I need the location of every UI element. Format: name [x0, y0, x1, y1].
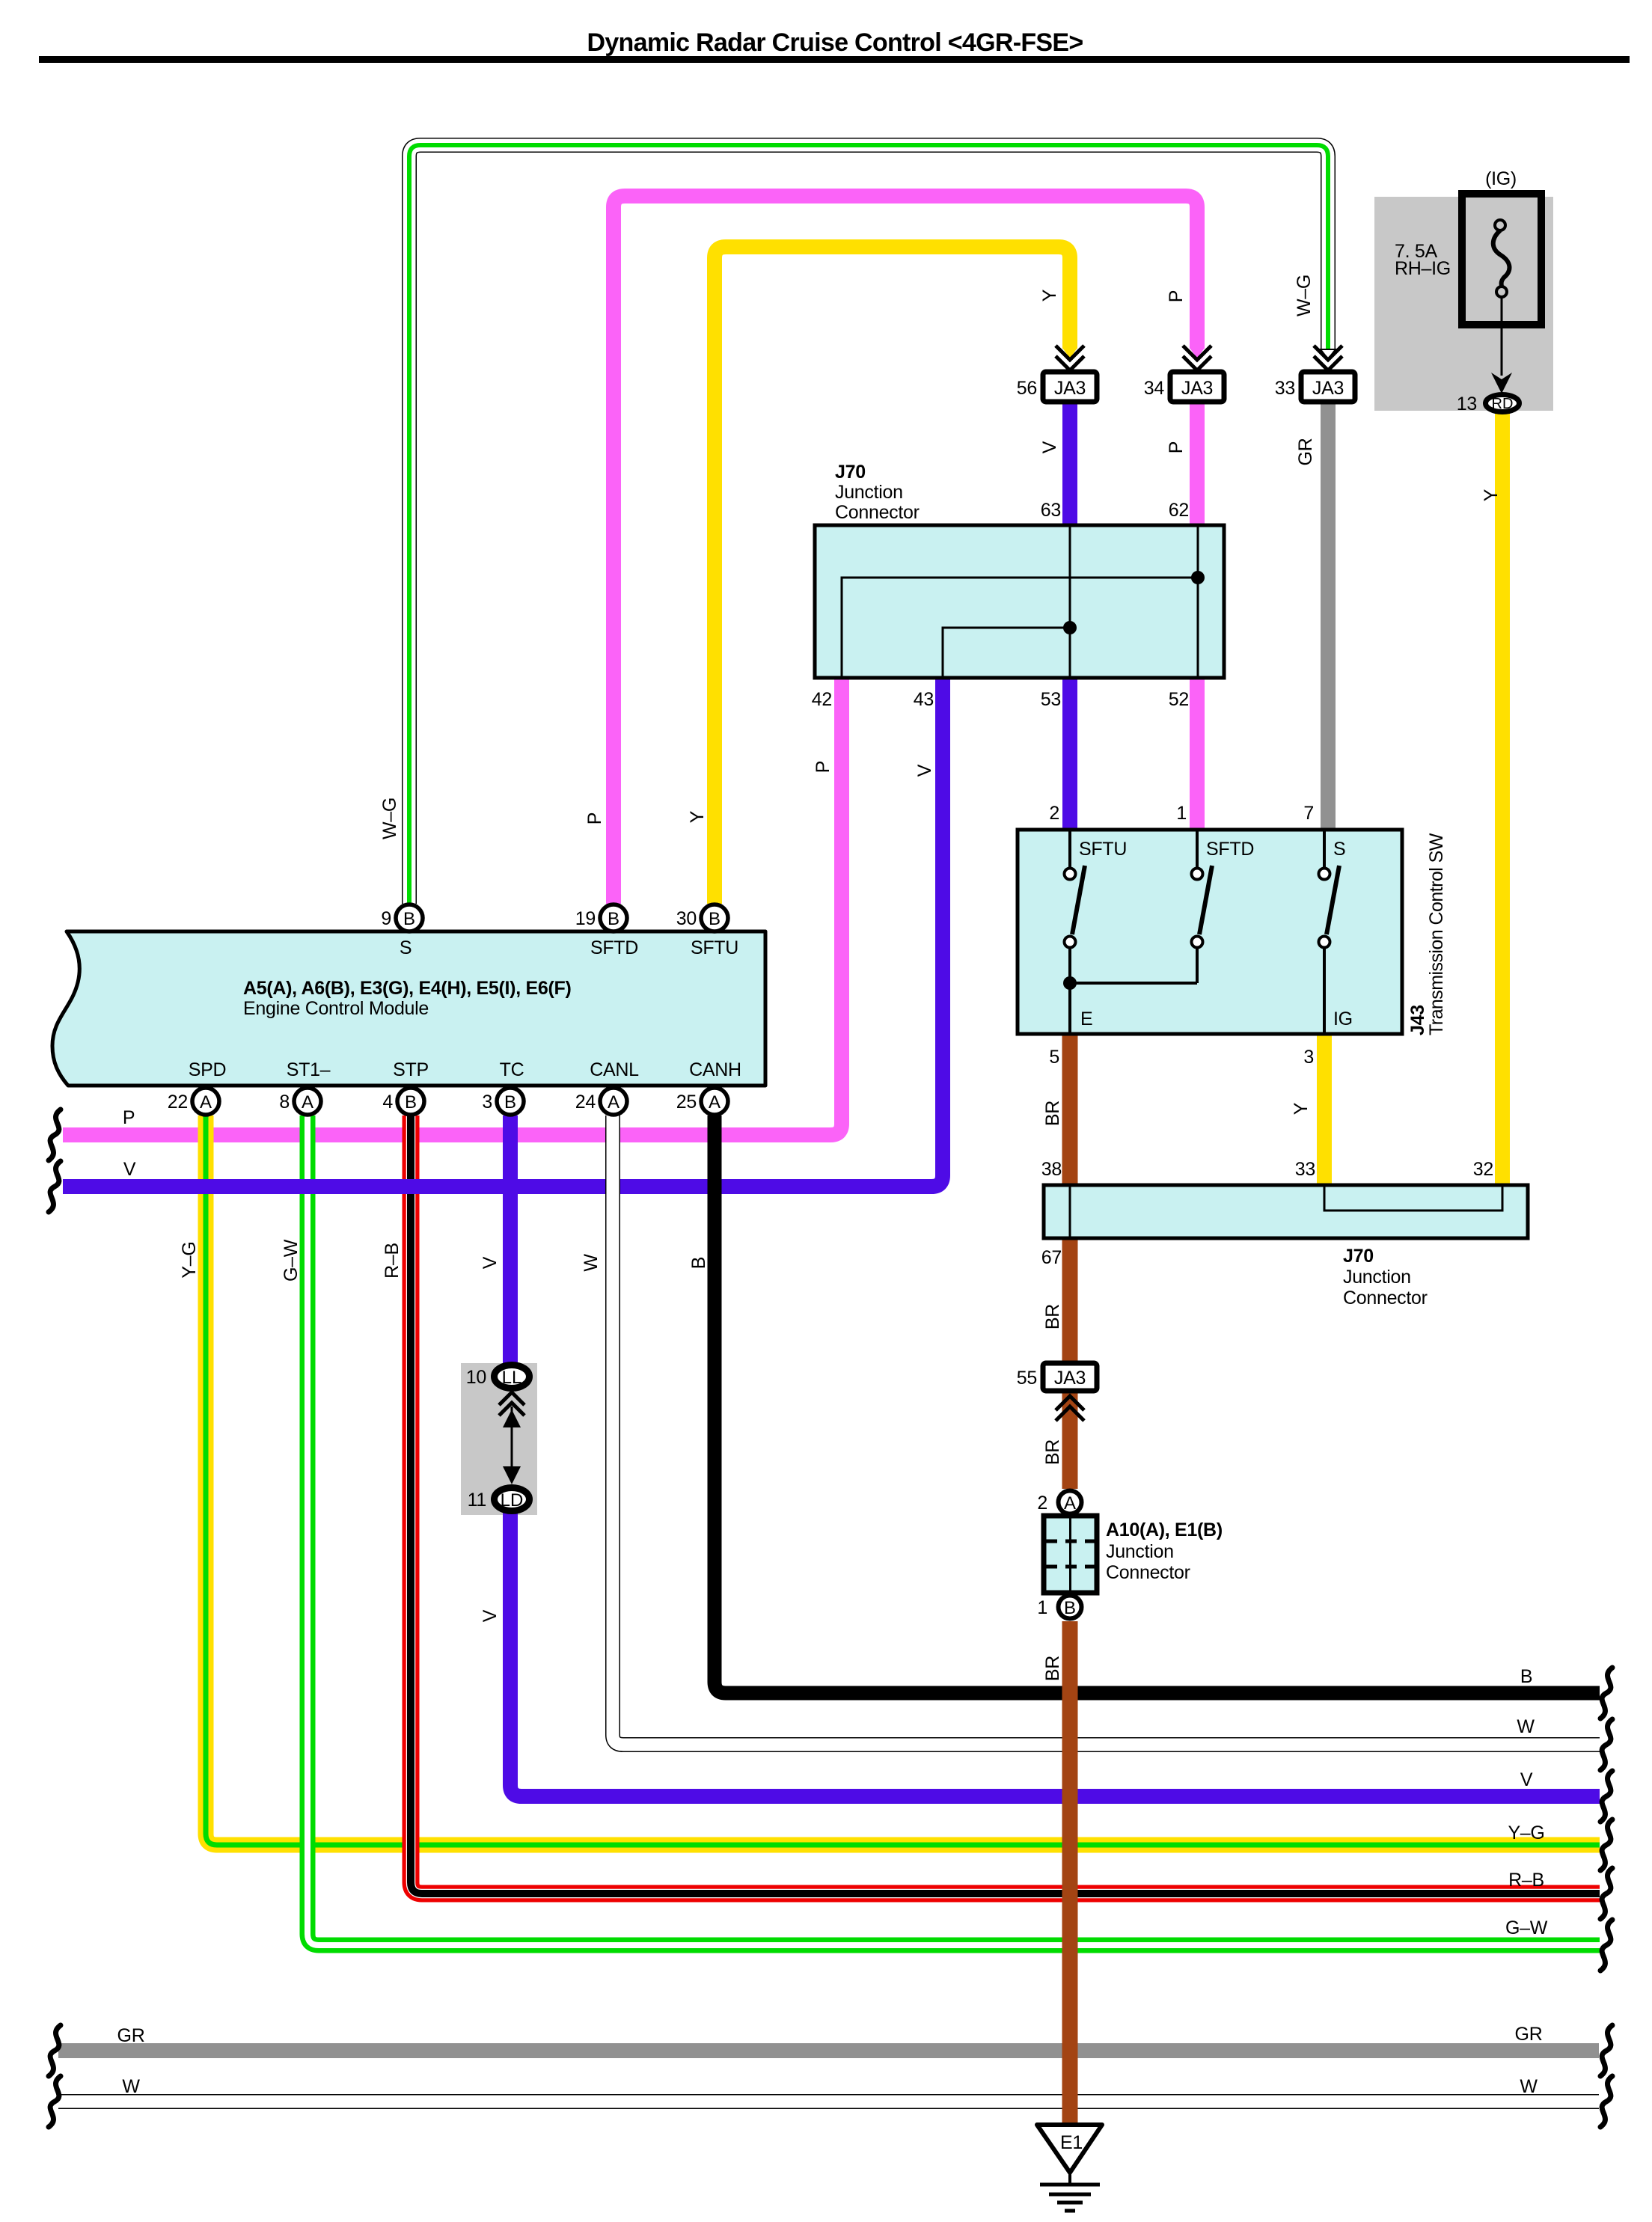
- svg-text:B: B: [709, 909, 721, 929]
- junction connector J70 (lower) box: [1044, 1185, 1528, 1238]
- svg-text:1: 1: [1037, 1597, 1047, 1618]
- J70 internal bus 62-52: [1197, 525, 1199, 678]
- J70 lower internal bus 33-32: [1324, 1185, 1502, 1211]
- svg-text:38: 38: [1041, 1159, 1062, 1180]
- svg-text:SFTU: SFTU: [1079, 839, 1127, 860]
- wire break squiggle W left: [49, 2076, 61, 2127]
- junction connector A10(A), E1(B) box: [1044, 1516, 1097, 1593]
- svg-text:Engine Control Module: Engine Control Module: [243, 998, 429, 1019]
- wire V from LD connector down and right to edge: [510, 1513, 1600, 1796]
- switch SFTU in J43: [1068, 830, 1071, 868]
- wire V horizontal run from left edge to J70 pin 43: [63, 676, 943, 1187]
- svg-text:V: V: [1039, 441, 1060, 453]
- wire break squiggle V right: [1600, 1771, 1612, 1822]
- wire BR from junction connector pin 1 (B) down to ground E1: [1062, 1621, 1078, 2126]
- terminal 10 (LL) oval: [495, 1365, 530, 1389]
- connector JA3 55: [1043, 1363, 1097, 1391]
- svg-text:P: P: [1166, 290, 1187, 302]
- svg-text:S: S: [400, 937, 412, 958]
- svg-text:56: 56: [1017, 378, 1037, 399]
- ECM pin 3 connector B: [497, 1088, 524, 1115]
- svg-text:JA3: JA3: [1054, 378, 1086, 399]
- svg-text:SPD: SPD: [189, 1059, 227, 1080]
- wire W-G from ECM pin 9 (S) up over to JA3 33: [409, 145, 1328, 904]
- J43 junction dot at E bus: [1063, 976, 1077, 990]
- wire Y pointed tip at JA3 56: [1062, 348, 1077, 358]
- svg-text:TC: TC: [500, 1059, 524, 1080]
- svg-text:W–G: W–G: [379, 798, 400, 839]
- svg-text:Y: Y: [1291, 1102, 1312, 1115]
- wire BR from SW pin 5 (E) down to J70 pin 38: [1062, 1032, 1078, 1187]
- junction connector J70 (upper) box: [815, 525, 1224, 678]
- wire G-W from ECM pin 8 (ST1-) down and right to edge: [308, 1115, 1600, 1945]
- svg-text:JA3: JA3: [1181, 378, 1213, 399]
- svg-text:CANL: CANL: [590, 1059, 639, 1080]
- J70 lower internal bus 38-67: [1069, 1185, 1071, 1238]
- svg-text:BR: BR: [1042, 1101, 1063, 1126]
- wire break squiggle GR left: [49, 2025, 61, 2076]
- wire Y-G from ECM pin 22 (SPD) down and right to edge: [206, 1115, 1600, 1845]
- svg-text:34: 34: [1144, 378, 1165, 399]
- svg-text:V: V: [914, 764, 935, 777]
- ECM pin 9 connector B: [396, 905, 423, 931]
- svg-text:P: P: [123, 1107, 135, 1128]
- ECM pin 22 connector A: [192, 1088, 219, 1115]
- svg-text:4: 4: [382, 1092, 393, 1112]
- wire break squiggle Y-G right: [1600, 1819, 1612, 1870]
- svg-text:13: 13: [1457, 394, 1477, 414]
- svg-text:E1: E1: [1060, 2132, 1083, 2153]
- svg-text:B: B: [1064, 1598, 1076, 1618]
- fuse output lead with arrow: [1501, 297, 1503, 376]
- J70 internal junction dot at 63 bus: [1063, 621, 1077, 634]
- wire break squiggle R-B right: [1600, 1868, 1612, 1919]
- svg-text:25: 25: [676, 1092, 697, 1112]
- svg-text:A: A: [302, 1092, 313, 1112]
- svg-text:8: 8: [279, 1092, 290, 1112]
- svg-text:33: 33: [1295, 1159, 1315, 1180]
- svg-text:G–W: G–W: [281, 1239, 302, 1282]
- svg-text:30: 30: [676, 908, 697, 929]
- svg-text:J70: J70: [835, 462, 866, 483]
- svg-text:63: 63: [1041, 500, 1061, 521]
- svg-text:Junction: Junction: [1343, 1267, 1411, 1288]
- svg-text:Y: Y: [1039, 289, 1060, 302]
- wire break squiggle G-W right: [1600, 1920, 1612, 1971]
- svg-text:Y: Y: [687, 810, 708, 823]
- svg-text:W: W: [1520, 2076, 1538, 2097]
- svg-text:Dynamic Radar Cruise Control <: Dynamic Radar Cruise Control <4GR-FSE>: [587, 28, 1083, 57]
- svg-text:10: 10: [466, 1367, 486, 1388]
- LL/LD link arrows: [499, 1392, 524, 1405]
- wire break squiggle W right: [1600, 1719, 1612, 1770]
- wire W bottom run across page: [58, 2094, 1599, 2109]
- svg-text:Transmission Control SW: Transmission Control SW: [1426, 833, 1447, 1035]
- svg-text:R–B: R–B: [1508, 1870, 1544, 1891]
- svg-text:22: 22: [168, 1092, 188, 1112]
- ECM pin 25 connector A: [701, 1088, 728, 1115]
- svg-text:Y–G: Y–G: [179, 1241, 200, 1278]
- svg-text:W–G: W–G: [1294, 275, 1315, 316]
- svg-text:V: V: [480, 1609, 501, 1622]
- J43 S lower lead to IG: [1323, 948, 1326, 1034]
- svg-text:GR: GR: [1515, 2024, 1543, 2045]
- svg-text:P: P: [584, 812, 605, 824]
- svg-text:A10(A), E1(B): A10(A), E1(B): [1106, 1519, 1223, 1540]
- ECM pin 19 connector B: [600, 905, 627, 931]
- switch SFTD in J43: [1196, 830, 1199, 868]
- svg-text:S: S: [1333, 839, 1345, 860]
- svg-text:P: P: [1166, 441, 1187, 453]
- svg-text:A5(A), A6(B), E3(G), E4(H), E5: A5(A), A6(B), E3(G), E4(H), E5(I), E6(F): [243, 978, 572, 999]
- svg-text:J70: J70: [1343, 1246, 1374, 1267]
- svg-text:33: 33: [1275, 378, 1295, 399]
- J70 internal bus to pin 43: [943, 628, 1070, 678]
- svg-text:SFTD: SFTD: [1206, 839, 1254, 860]
- svg-text:E: E: [1080, 1009, 1092, 1029]
- wire Y from ECM pin 30 (SFTU) up over to JA3 56: [715, 247, 1070, 904]
- wire P from ECM pin 19 (SFTD) up over to JA3 34: [614, 196, 1197, 904]
- svg-text:32: 32: [1473, 1159, 1493, 1180]
- svg-text:62: 62: [1169, 500, 1189, 521]
- fuse block shaded area: [1374, 197, 1553, 411]
- svg-text:W: W: [122, 2076, 140, 2097]
- svg-text:V: V: [1520, 1769, 1533, 1790]
- svg-text:3: 3: [1303, 1047, 1314, 1068]
- svg-text:19: 19: [575, 908, 596, 929]
- svg-text:V: V: [123, 1159, 136, 1180]
- svg-text:55: 55: [1017, 1368, 1037, 1389]
- terminal 13 (RD) oval: [1486, 395, 1520, 412]
- svg-text:Connector: Connector: [835, 502, 920, 523]
- svg-text:67: 67: [1041, 1247, 1062, 1268]
- ECM pin 4 connector B: [397, 1088, 424, 1115]
- svg-text:B: B: [1520, 1666, 1532, 1687]
- wire W from ECM pin 24 (CANL) down and right to edge: [613, 1115, 1600, 1745]
- J43 internal link SFTD to E: [1070, 982, 1197, 985]
- svg-text:STP: STP: [393, 1059, 429, 1080]
- svg-text:BR: BR: [1042, 1656, 1063, 1681]
- wire V from JA3 56 down to J70 pin 63: [1062, 400, 1077, 527]
- svg-text:A: A: [200, 1092, 212, 1112]
- svg-text:1: 1: [1176, 803, 1187, 824]
- junction connector pin 1 (B): [1059, 1596, 1082, 1619]
- svg-text:43: 43: [914, 689, 934, 710]
- switch S in J43: [1323, 830, 1326, 868]
- svg-text:BR: BR: [1042, 1304, 1063, 1329]
- svg-text:B: B: [688, 1257, 709, 1269]
- wire break squiggle B right: [1600, 1668, 1612, 1718]
- svg-text:LL: LL: [502, 1368, 522, 1388]
- svg-text:GR: GR: [1295, 438, 1316, 466]
- svg-text:53: 53: [1041, 689, 1061, 710]
- wire V from ECM pin 3 (TC) down to LL connector: [503, 1115, 518, 1363]
- svg-text:W: W: [1517, 1716, 1535, 1737]
- LL/LD connector shaded area: [461, 1363, 537, 1515]
- svg-text:3: 3: [482, 1092, 492, 1112]
- wire GR bottom run across page: [58, 2043, 1599, 2058]
- svg-text:42: 42: [812, 689, 832, 710]
- fuse 7.5A RH-IG symbol box: [1462, 194, 1541, 325]
- svg-text:2: 2: [1037, 1493, 1047, 1514]
- svg-text:SFTU: SFTU: [691, 937, 738, 958]
- terminal 11 (LD) oval: [495, 1488, 530, 1511]
- wire P pointed tip at JA3 34: [1190, 348, 1205, 358]
- wire BR from JA3 55 down to junction connector pin 2 (A): [1062, 1389, 1078, 1489]
- svg-text:GR: GR: [117, 2025, 145, 2046]
- svg-text:P: P: [813, 761, 833, 773]
- svg-text:IG: IG: [1333, 1009, 1353, 1029]
- junction connector pin 2 (A): [1059, 1491, 1082, 1514]
- svg-text:A: A: [1064, 1493, 1076, 1514]
- svg-text:52: 52: [1169, 689, 1189, 710]
- wire GR from JA3 33 down to Transmission Control SW pin 7: [1321, 400, 1336, 831]
- svg-text:W: W: [581, 1254, 602, 1272]
- svg-text:A: A: [608, 1092, 619, 1112]
- svg-text:SFTD: SFTD: [590, 937, 638, 958]
- svg-text:CANH: CANH: [689, 1059, 741, 1080]
- wire Y from fuse 13 (RD) down to J70 pin 32: [1495, 411, 1510, 1187]
- J70 internal junction dot at 62 bus: [1191, 571, 1205, 584]
- connector JA3 33: [1314, 346, 1342, 360]
- svg-text:5: 5: [1049, 1047, 1059, 1068]
- svg-text:Y: Y: [1481, 489, 1502, 501]
- svg-text:B: B: [608, 909, 619, 929]
- svg-text:B: B: [403, 909, 415, 929]
- svg-text:9: 9: [381, 908, 391, 929]
- ECM pin 30 connector B: [701, 905, 728, 931]
- connector JA3 56: [1056, 346, 1084, 360]
- J70 internal bus to pin 42: [842, 578, 1198, 678]
- J43 SFTD lower lead: [1196, 948, 1199, 983]
- svg-text:Y–G: Y–G: [1508, 1822, 1544, 1843]
- J70 internal bus 63-53: [1069, 525, 1071, 678]
- Transmission Control SW J43 box: [1018, 830, 1402, 1034]
- wire P horizontal run from left edge to J70 pin 42: [63, 676, 842, 1135]
- svg-text:RD: RD: [1492, 396, 1514, 412]
- ECM A5(A),A6(B),E3(G),E4(H),E5(I),E6(F) Engine Control Module box: [52, 931, 765, 1086]
- title underline rule: [39, 56, 1630, 63]
- svg-text:(IG): (IG): [1485, 168, 1517, 189]
- wire break squiggle W right bottom: [1600, 2076, 1612, 2127]
- svg-text:G–W: G–W: [1505, 1918, 1548, 1938]
- wire P from J70 pin 52 down to SW pin 1 (SFTD): [1190, 676, 1205, 831]
- wire R-B from ECM pin 4 (STP) down and right to edge: [411, 1115, 1600, 1894]
- svg-text:ST1–: ST1–: [287, 1059, 331, 1080]
- wire break squiggle V left: [49, 1161, 61, 1212]
- svg-text:Connector: Connector: [1343, 1288, 1428, 1309]
- svg-text:B: B: [405, 1092, 417, 1112]
- JA3 55 chevrons pointing up: [1056, 1396, 1084, 1410]
- wire break squiggle P left: [49, 1110, 61, 1160]
- wire Y from SW pin 3 (IG) down to J70 pin 33: [1317, 1032, 1332, 1187]
- svg-text:7: 7: [1303, 803, 1314, 824]
- wire BR from J70 pin 67 down to JA3 55: [1062, 1237, 1078, 1365]
- svg-text:2: 2: [1049, 803, 1059, 824]
- J43 SFTU lower lead with junction to E: [1068, 948, 1071, 1034]
- svg-text:JA3: JA3: [1312, 378, 1344, 399]
- wire V from J70 pin 53 down to SW pin 2 (SFTU): [1062, 676, 1077, 831]
- svg-text:JA3: JA3: [1054, 1368, 1086, 1389]
- wire P from JA3 34 down to J70 pin 62: [1190, 400, 1205, 527]
- wire B from ECM pin 25 (CANH) down and right to edge: [715, 1115, 1600, 1693]
- wire break squiggle GR right: [1600, 2025, 1612, 2076]
- svg-text:LD: LD: [501, 1490, 524, 1511]
- ECM pin 24 connector A: [600, 1088, 627, 1115]
- ECM pin 8 connector A: [294, 1088, 321, 1115]
- svg-text:R–B: R–B: [382, 1243, 403, 1279]
- svg-text:Junction: Junction: [835, 482, 903, 503]
- svg-text:V: V: [480, 1256, 501, 1269]
- svg-text:BR: BR: [1042, 1439, 1063, 1465]
- connector JA3 34: [1183, 346, 1211, 360]
- svg-text:Connector: Connector: [1106, 1562, 1190, 1583]
- svg-text:RH–IG: RH–IG: [1395, 258, 1451, 279]
- svg-text:J43: J43: [1407, 1005, 1428, 1035]
- svg-text:B: B: [504, 1092, 516, 1112]
- svg-text:A: A: [709, 1092, 721, 1112]
- svg-text:11: 11: [468, 1490, 486, 1511]
- svg-text:Junction: Junction: [1106, 1541, 1174, 1562]
- fuse element curve: [1493, 230, 1510, 287]
- ground E1: [1037, 2125, 1102, 2173]
- wire W-G pointed tip at JA3 33: [1321, 349, 1336, 359]
- svg-text:24: 24: [575, 1092, 596, 1112]
